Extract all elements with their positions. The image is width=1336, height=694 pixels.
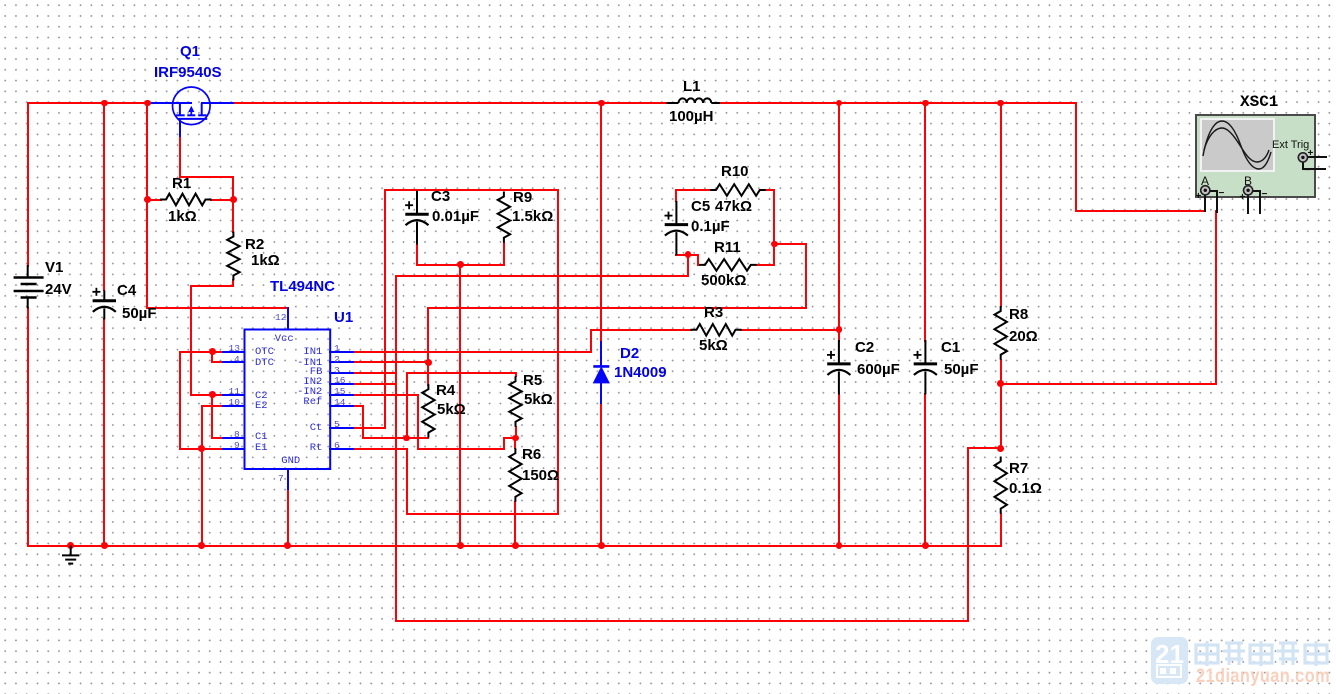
- junction rail-C2 bottom: [836, 542, 843, 549]
- wire V1 bottom lead: [27, 307, 29, 547]
- wire comp down to H308: [805, 243, 807, 309]
- label 1.5kΩ: [512, 208, 553, 225]
- mark Ext plus: [1308, 148, 1314, 159]
- scope B- stub: [1259, 190, 1261, 214]
- ground: [62, 546, 79, 564]
- wire C5 bottom row: [675, 254, 698, 256]
- label R10: [721, 163, 749, 180]
- resistor R2 1k vertical: [227, 232, 239, 281]
- scope terminal A: [1201, 186, 1210, 195]
- label 0.1Ω: [1009, 480, 1042, 497]
- wire divider jog up: [503, 437, 505, 450]
- wire Vcc to pin 12: [146, 307, 288, 309]
- label C1: [941, 339, 960, 356]
- wire R6 bottom lead: [514, 501, 516, 547]
- junction pin9: [198, 445, 205, 452]
- scope A- bracket top: [1209, 190, 1218, 192]
- chip label Vcc: [275, 333, 294, 345]
- label 1kΩ: [168, 208, 197, 225]
- wire R8 top lead red: [1000, 102, 1002, 307]
- wire R11 left jog: [697, 254, 699, 266]
- wire V1 top lead: [27, 102, 29, 267]
- pin 12 stub: [287, 307, 289, 330]
- label 5kΩ: [437, 401, 466, 418]
- wire pin 16 row: [352, 383, 397, 385]
- wire R8 node to scope A-: [1000, 383, 1217, 385]
- junction rail-C1: [922, 100, 929, 107]
- chip label C1: [255, 431, 268, 443]
- wire pin 15 row: [352, 394, 419, 396]
- wire bottom ground rail: [27, 545, 1002, 547]
- pin number 10: [229, 397, 240, 408]
- label 500kΩ: [701, 272, 746, 289]
- label 0.1µF: [691, 218, 730, 235]
- label R1: [172, 175, 191, 192]
- pin number 4: [234, 354, 240, 365]
- wire pin 5 Ct row: [352, 427, 387, 429]
- junction rail-C4 bottom: [101, 542, 108, 549]
- junction rail-ground: [67, 542, 74, 549]
- label R7: [1009, 460, 1028, 477]
- wire C2 top lead red: [838, 102, 840, 342]
- wire C3 node to ground rail: [459, 264, 461, 547]
- wire scope feed vertical: [1075, 102, 1077, 212]
- resistor R6 150 vertical: [509, 448, 521, 502]
- wire scope feed to A+ terminal: [1075, 210, 1207, 212]
- wire pin 6 Rt row: [352, 448, 408, 450]
- wire C5 to R10 top: [675, 189, 711, 191]
- label R9: [513, 189, 532, 206]
- wire Q1 gate lead blue: [201, 102, 235, 104]
- scope terminal B: [1244, 186, 1253, 195]
- wire scope A- vertical: [1215, 210, 1217, 384]
- junction pin11: [209, 391, 216, 398]
- junction pin13: [209, 348, 216, 355]
- battery V1 24V: [14, 265, 44, 309]
- wire R4 top column: [427, 307, 429, 386]
- label 5kΩ: [699, 337, 728, 354]
- wire D2 anode to ground rail: [600, 404, 602, 547]
- wire R2 bottom lead: [232, 279, 234, 287]
- wire top rail L1 to scope corner: [719, 102, 1077, 104]
- wire pin 7 to ground rail: [287, 488, 289, 547]
- label D2: [620, 345, 639, 362]
- wire R7 bottom lead red: [1000, 513, 1002, 547]
- wire top rail from V1 to Q1 source: [27, 102, 151, 104]
- label TL494NC: [270, 278, 335, 295]
- watermark logo bottom box: [1156, 664, 1182, 678]
- pin 3 stub: [329, 372, 354, 374]
- mark A minus: [1219, 188, 1225, 199]
- scope B- bracket top: [1251, 190, 1261, 192]
- mark B minus: [1262, 189, 1268, 200]
- label Ext Trig: [1272, 139, 1309, 151]
- pin 1 stub: [329, 351, 354, 353]
- label 24V: [45, 281, 72, 298]
- chip label IN1: [303, 346, 322, 358]
- wire feedback H308: [427, 307, 807, 309]
- pin 16 stub: [329, 383, 354, 385]
- wire pin15 to divider: [417, 448, 506, 450]
- pin 11 stub: [222, 394, 246, 396]
- wire R2 top lead: [232, 199, 234, 233]
- junction rail-pin7: [284, 542, 291, 549]
- junction rail-C1 bottom: [922, 542, 929, 549]
- wire drain to R1 right node: [232, 176, 234, 201]
- label C4: [117, 282, 136, 299]
- junction rail-R6: [512, 542, 519, 549]
- junction R7 top: [997, 445, 1004, 452]
- label B: [1244, 174, 1252, 188]
- label R4: [436, 382, 455, 399]
- wire C3 bottom lead red: [416, 243, 418, 266]
- label R8: [1009, 306, 1028, 323]
- pin number 7: [278, 473, 284, 484]
- wire R1 right lead: [210, 199, 234, 201]
- wire R3 right lead to C2 node: [740, 329, 840, 331]
- junction Ref row: [403, 435, 410, 442]
- inductor L1 100uH: [667, 98, 720, 103]
- chip label Ct: [310, 422, 323, 434]
- wire pin 1 row: [352, 351, 592, 353]
- capacitor C3 0.01uF: [405, 191, 429, 245]
- junction R1 right: [230, 196, 237, 203]
- junction rail-C2: [836, 100, 843, 107]
- wire pin1 jog up: [590, 329, 592, 353]
- junction rail-D2 bottom: [598, 542, 605, 549]
- wire pin11 to pin8 link: [211, 394, 213, 439]
- junction R3-C2: [836, 326, 843, 333]
- label 600µF: [857, 361, 900, 378]
- pin number 9: [234, 440, 240, 451]
- wire pin 11 row: [190, 394, 224, 396]
- wire R10-R11 right vertical: [773, 189, 775, 266]
- wire R11 right lead: [756, 264, 776, 266]
- label L1: [683, 78, 701, 95]
- chip label -IN1: [297, 357, 322, 369]
- wire pin10 to pin9 link: [201, 405, 203, 450]
- wire Q1 drain down: [179, 135, 181, 178]
- scope Ext Trig + wire: [1306, 156, 1327, 158]
- pin number 13: [229, 343, 240, 354]
- pin number 15: [334, 386, 345, 397]
- chip label DTC: [255, 357, 274, 369]
- wire Rt bottom jog: [406, 513, 559, 515]
- label 0.01µF: [432, 208, 479, 225]
- wire R5 top lead: [515, 372, 517, 377]
- chip label FB: [310, 366, 323, 378]
- resistor R3 5k horizontal: [691, 324, 742, 336]
- pin 8 stub: [222, 437, 246, 439]
- wire pin9 node to ground rail: [201, 448, 203, 547]
- label C2: [855, 339, 874, 356]
- resistor R11 500k horizontal: [699, 259, 757, 271]
- transistor Q1 IRF9540S: [173, 87, 211, 125]
- watermark logo text 21: [1155, 639, 1184, 670]
- wire C4 bottom lead: [103, 318, 105, 547]
- watermark logo block 21dianyuan: [1151, 637, 1188, 684]
- scope screen waveforms: [1203, 121, 1271, 169]
- resistor R5 5k vertical: [509, 376, 521, 427]
- scope Ext Trig - wire: [1302, 168, 1327, 170]
- label R2: [245, 236, 264, 253]
- wire R5 bottom lead: [515, 426, 517, 439]
- diode D2 1N4009: [593, 366, 609, 383]
- wire pin 2 row: [352, 361, 430, 363]
- wire D2 cathode column red: [600, 102, 602, 343]
- scope Ext Trig bracket: [1302, 161, 1304, 170]
- wire sense H277: [395, 275, 689, 277]
- pin number 2: [334, 354, 340, 365]
- chip label E2: [255, 400, 268, 412]
- wire pin15 down: [417, 394, 419, 450]
- label U1: [334, 309, 353, 326]
- wire R2 bottom jog left: [190, 285, 234, 287]
- label IRF9540S: [154, 64, 222, 81]
- watermark url text: [1196, 666, 1330, 688]
- chip label OTC: [255, 346, 274, 358]
- wire pin 10 row: [201, 405, 224, 407]
- pin number 12: [275, 312, 286, 323]
- pin 9 stub: [222, 448, 246, 450]
- wire R3 left lead: [590, 329, 692, 331]
- capacitor C1 50uF: [914, 340, 938, 395]
- mark Ext minus: [1305, 165, 1311, 176]
- wire pin 9 row: [179, 448, 224, 450]
- junction C3-R9 gnd: [457, 261, 464, 268]
- resistor R8 20 vertical: [995, 306, 1007, 360]
- label 1kΩ: [251, 252, 280, 269]
- resistor R1 1k horizontal: [160, 194, 212, 206]
- wire C5 node down to H277: [687, 254, 689, 278]
- wire C3 R9 bottom loop: [416, 264, 505, 266]
- capacitor C2 600uF: [827, 340, 851, 395]
- wire divider jog to R5R6 node: [503, 437, 516, 439]
- op-amp U1 TL494NC chip body: [245, 330, 331, 470]
- label XSC1: [1240, 93, 1278, 111]
- label Q1: [180, 43, 200, 60]
- junction R5-R6: [512, 435, 519, 442]
- wire pin 8 row: [211, 437, 224, 439]
- wire pin 14 row: [352, 405, 365, 407]
- label 50µF: [944, 361, 979, 378]
- pin number 14: [334, 397, 345, 408]
- label R6: [522, 446, 541, 463]
- wire Q1 drain lead blue: [179, 118, 181, 137]
- label 5kΩ: [524, 391, 553, 408]
- pin 10 stub: [222, 405, 246, 407]
- chip label -IN2: [297, 386, 322, 398]
- chip label IN2: [303, 376, 322, 388]
- resistor R4 5k vertical: [422, 384, 434, 437]
- label 150Ω: [522, 467, 559, 484]
- wire R8 bottom to R7 node: [1000, 359, 1002, 450]
- wire Rt down vertical: [406, 448, 408, 515]
- pin 7 stub: [287, 468, 289, 490]
- label 47kΩ: [715, 198, 752, 215]
- scope terminal Ext Trig: [1298, 153, 1307, 162]
- wire C3 R9 top loop: [384, 189, 559, 191]
- wire R10 right lead: [765, 189, 776, 191]
- label 20Ω: [1009, 328, 1038, 345]
- wire D2 cathode lead blue: [600, 341, 602, 368]
- label C3: [431, 188, 450, 205]
- mark A plus: [1196, 191, 1202, 202]
- wire Vcc column: [146, 102, 148, 309]
- wire R2 to pin 11 vertical: [190, 285, 192, 395]
- resistor R7 0.1 vertical: [995, 457, 1007, 514]
- wire comp node right jog: [773, 243, 807, 245]
- pin number 3: [334, 365, 340, 376]
- label 50µF: [122, 305, 157, 322]
- resistor R10 47k horizontal: [710, 184, 766, 196]
- chip label C2: [255, 390, 268, 402]
- wire sense vertical x968: [967, 447, 969, 622]
- label 1N4009: [614, 364, 667, 381]
- pin number 1: [334, 343, 340, 354]
- wire R1 left lead: [146, 199, 162, 201]
- capacitor C4 50uF: [92, 288, 116, 320]
- wire Q1 source lead blue: [149, 102, 192, 104]
- wire node to R5 top: [406, 372, 517, 374]
- chip label GND: [281, 455, 300, 467]
- wire Q1 drain jog right: [179, 176, 234, 178]
- pin 14 stub: [329, 405, 354, 407]
- label R5: [523, 372, 542, 389]
- chip label E1: [255, 442, 268, 454]
- wire C4 top lead: [103, 102, 105, 291]
- wire R9 bottom lead red: [503, 242, 505, 266]
- pin number 16: [334, 375, 345, 386]
- scope A+ stub: [1204, 194, 1206, 213]
- wire sense to R7 top: [967, 447, 1002, 449]
- chip label Ref: [303, 396, 322, 408]
- pin 13 stub: [222, 351, 246, 353]
- wire Ref down: [362, 405, 364, 440]
- pin number 8: [234, 429, 240, 440]
- junction R8 bottom: [997, 380, 1004, 387]
- wire right loop vertical x558: [557, 189, 559, 515]
- wire pin 4 row: [211, 361, 224, 363]
- junction R1 left: [144, 196, 151, 203]
- resistor R9 1.5k vertical: [498, 192, 510, 243]
- scope A- stub: [1216, 190, 1218, 214]
- junction C5-R11: [685, 251, 692, 258]
- junction rail-Vcc: [144, 100, 151, 107]
- pin 4 stub: [222, 361, 246, 363]
- junction rail-C3col: [457, 542, 464, 549]
- wire C1 top lead red: [924, 102, 926, 342]
- label A: [1201, 174, 1209, 188]
- wire C5 top lead red: [675, 189, 677, 202]
- wire top rail Q1 gate-side to L1: [233, 102, 669, 104]
- wire Ref row to R4 bottom: [362, 437, 429, 439]
- pin 2 stub: [329, 361, 354, 363]
- label 100µH: [669, 108, 714, 125]
- wire C2 bottom lead red: [838, 393, 840, 547]
- oscilloscope XSC1 body: [1195, 114, 1316, 198]
- junction rail-pin9: [198, 542, 205, 549]
- mark B plus: [1240, 192, 1246, 203]
- wire Ct vertical to C3 loop: [384, 189, 386, 429]
- pin 15 stub: [329, 394, 354, 396]
- wire R6 top lead: [514, 437, 516, 450]
- wire pin13 to pin4 link: [211, 351, 213, 364]
- label C5: [691, 198, 710, 215]
- wire R5-node vertical x407: [406, 372, 408, 439]
- junction rail-R8: [997, 100, 1004, 107]
- junction rail-C4: [101, 100, 108, 107]
- pin number 5: [334, 419, 340, 430]
- junction R10-R11: [771, 241, 778, 248]
- wire pins 13-9 vertical: [179, 351, 181, 450]
- label V1: [45, 259, 63, 276]
- label R3: [704, 304, 723, 321]
- pin 5 stub: [329, 427, 354, 429]
- chip label Rt: [310, 442, 323, 454]
- wire long left vertical x396: [395, 275, 397, 622]
- pin 6 stub: [329, 448, 354, 450]
- wire C1 bottom lead red: [924, 393, 926, 547]
- capacitor C5 0.1uF: [665, 201, 689, 255]
- junction rail-D2: [598, 100, 605, 107]
- junction pin2-R4: [425, 359, 432, 366]
- wire pin 13 row: [179, 351, 224, 353]
- wire D2 anode lead blue: [600, 381, 602, 406]
- scope B+ stub: [1247, 194, 1249, 214]
- pin number 6: [334, 440, 340, 451]
- pin number 11: [229, 386, 240, 397]
- oscilloscope screen: [1200, 118, 1275, 172]
- wire long bottom horizontal: [395, 620, 969, 622]
- wire pin 3 row: [352, 372, 397, 374]
- label R11: [714, 239, 741, 256]
